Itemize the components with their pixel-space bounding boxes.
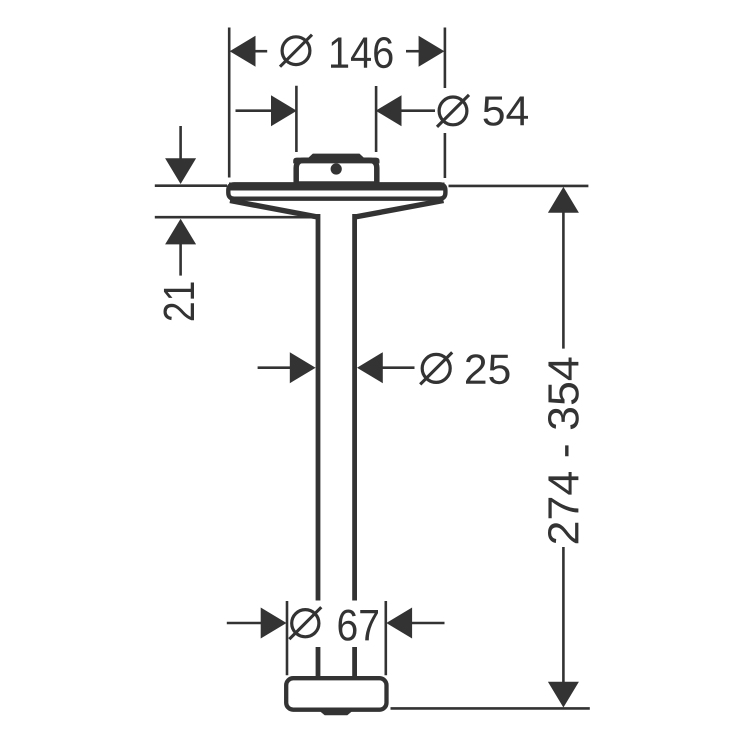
dim 54 right arrow xyxy=(376,95,402,126)
dim 67 left arrow xyxy=(261,608,287,639)
bottom outlet tab xyxy=(321,708,352,715)
dim 54 value text xyxy=(484,97,529,126)
dim 274-354 top extension line xyxy=(449,185,589,188)
flange top reference line xyxy=(155,184,227,187)
dim 146 right stub xyxy=(406,50,419,53)
dim 146 value text xyxy=(331,37,393,68)
dim 146 right arrow xyxy=(419,36,445,67)
dim 67 right tail line xyxy=(412,622,445,625)
dim 54 left arrow xyxy=(271,95,297,126)
flange plate xyxy=(228,184,445,198)
dim 274-354 down arrow xyxy=(548,682,579,708)
screw dot xyxy=(331,163,342,174)
dim 54 right extension line xyxy=(375,86,378,152)
dim 25 right tail line xyxy=(382,366,414,369)
pipe left wall lower segment xyxy=(316,647,321,678)
pipe left wall upper segment xyxy=(316,214,321,601)
dim 146 left stub xyxy=(255,50,267,53)
flange top bar xyxy=(229,183,445,191)
dim 146 left extension line xyxy=(228,28,231,178)
dim 54 text background mask xyxy=(435,88,533,133)
dim 21 down arrow xyxy=(165,158,196,184)
taper left edge xyxy=(230,201,317,217)
dim 21 upper pointer line xyxy=(179,126,182,160)
dim 274-354 bottom extension line xyxy=(391,707,590,710)
dim 67 diameter symbol xyxy=(289,607,321,639)
dim 21 value text xyxy=(164,283,195,321)
dim 67 right arrow xyxy=(386,608,412,639)
dim 25 diameter symbol xyxy=(420,352,452,384)
pipe right wall lower segment xyxy=(352,647,357,678)
dim 67 right extension line xyxy=(384,601,387,675)
dim 67 left extension line xyxy=(286,601,289,675)
dim 25 left tail line xyxy=(258,366,292,369)
dim 54 left extension line xyxy=(295,86,298,152)
dim 67 value text xyxy=(339,610,379,641)
ceiling plane reference line xyxy=(155,216,316,219)
dim 21 lower pointer line xyxy=(179,244,182,276)
taper right edge xyxy=(356,201,444,217)
dim 25 value text xyxy=(466,354,510,384)
dim 146 left arrow xyxy=(230,36,256,67)
dim 54 right tail line xyxy=(401,109,436,112)
bottom escutcheon block xyxy=(286,678,386,710)
dim 274-354 lower line segment xyxy=(562,547,565,683)
dim 54 diameter symbol xyxy=(437,95,469,127)
dim 25 right arrow xyxy=(357,352,383,383)
dim 54 left tail line xyxy=(236,109,272,112)
dim 67 left tail line xyxy=(227,622,262,625)
dim 146 right extension line xyxy=(444,28,447,179)
pipe right wall upper segment xyxy=(352,214,357,601)
dim 274-354 up arrow xyxy=(548,187,579,213)
dim 146 diameter symbol xyxy=(280,35,312,67)
ceiling connector block xyxy=(293,154,379,184)
dim 274-354 value text xyxy=(548,358,579,544)
dim 274-354 upper line segment xyxy=(562,212,565,348)
dim 21 up arrow xyxy=(165,219,196,245)
dim 25 left arrow xyxy=(290,352,316,383)
